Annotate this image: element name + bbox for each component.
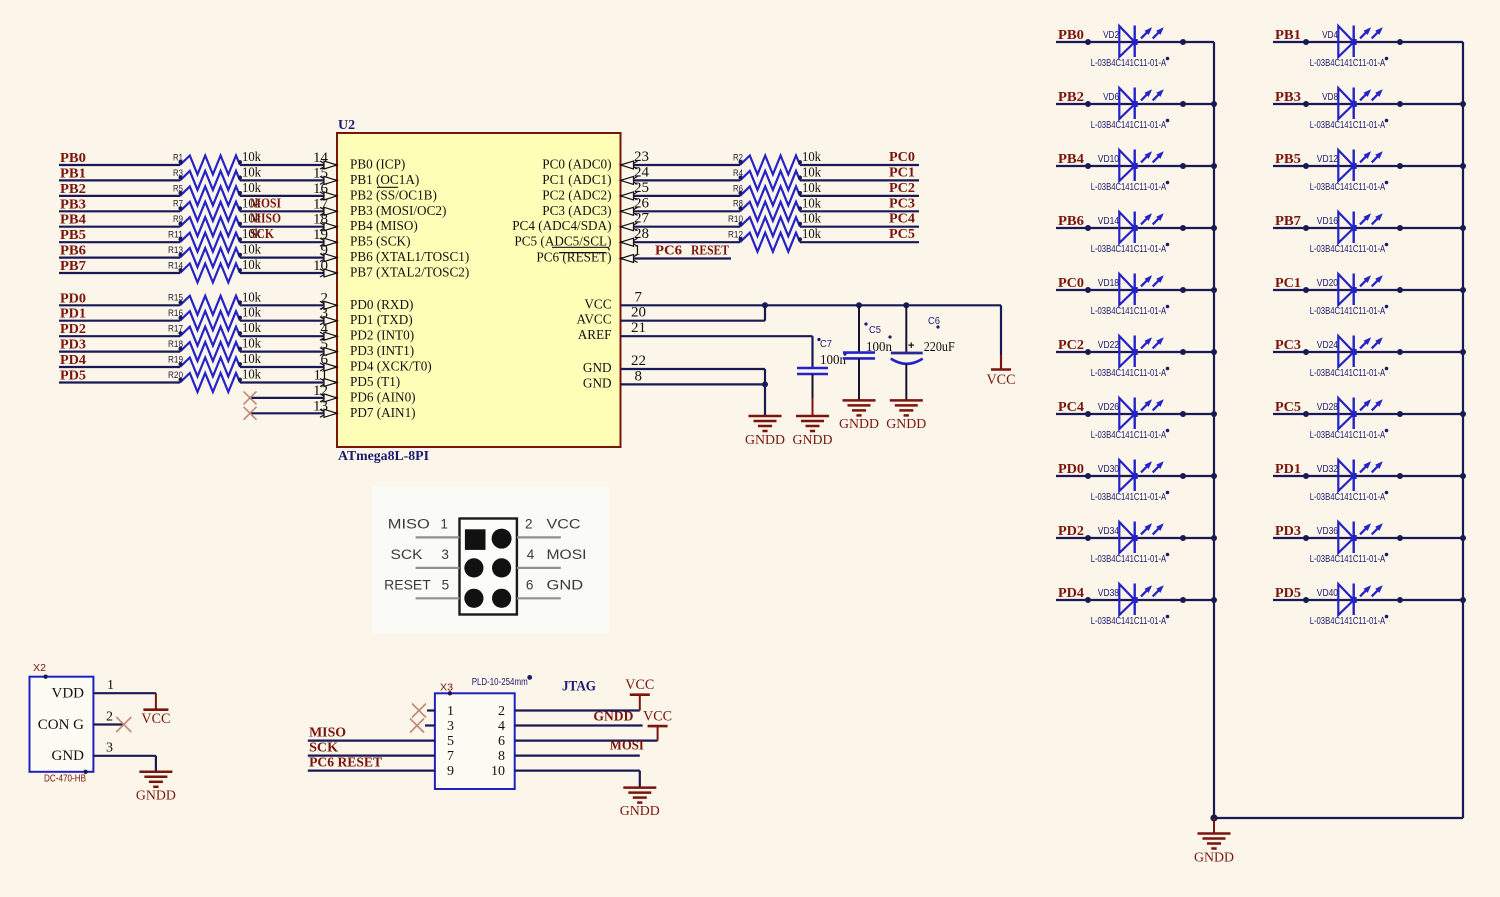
svg-text:SCK: SCK xyxy=(309,741,338,756)
svg-text:C5: C5 xyxy=(869,325,881,336)
svg-text:PB6: PB6 xyxy=(60,244,86,259)
svg-text:VD18: VD18 xyxy=(1098,278,1120,289)
svg-text:L-03B4C141C11-01-A: L-03B4C141C11-01-A xyxy=(1310,367,1386,379)
svg-text:CON G: CON G xyxy=(38,717,84,733)
svg-text:PB3: PB3 xyxy=(60,197,86,212)
svg-text:PD5 (T1): PD5 (T1) xyxy=(350,374,400,389)
svg-text:PD2: PD2 xyxy=(60,322,86,337)
svg-text:X2: X2 xyxy=(33,662,46,674)
svg-text:27: 27 xyxy=(634,211,650,227)
svg-text:VD36: VD36 xyxy=(1317,526,1339,537)
svg-text:PB7 (XTAL2/TOSC2): PB7 (XTAL2/TOSC2) xyxy=(350,265,469,280)
svg-text:10k: 10k xyxy=(242,351,261,366)
svg-text:PC6 (RESET): PC6 (RESET) xyxy=(536,250,611,265)
svg-text:5: 5 xyxy=(442,577,450,592)
svg-text:PC0: PC0 xyxy=(889,150,915,165)
svg-text:R12: R12 xyxy=(728,230,743,240)
svg-text:PC1: PC1 xyxy=(1275,276,1301,291)
svg-text:PD7 (AIN1): PD7 (AIN1) xyxy=(350,405,416,420)
svg-text:R15: R15 xyxy=(168,293,183,303)
svg-text:PD3: PD3 xyxy=(60,338,86,353)
svg-text:PB2: PB2 xyxy=(60,182,86,197)
svg-text:PC4 (ADC4/SDA): PC4 (ADC4/SDA) xyxy=(512,218,611,233)
svg-text:GNDD: GNDD xyxy=(793,433,833,448)
svg-text:PC3: PC3 xyxy=(1275,338,1301,353)
svg-text:PD4: PD4 xyxy=(1058,586,1084,601)
svg-text:1: 1 xyxy=(440,516,448,531)
svg-text:3: 3 xyxy=(441,547,449,562)
svg-text:L-03B4C141C11-01-A: L-03B4C141C11-01-A xyxy=(1310,57,1386,69)
svg-text:26: 26 xyxy=(634,195,650,211)
svg-text:24: 24 xyxy=(634,164,650,180)
svg-text:PB3 (MOSI/OC2): PB3 (MOSI/OC2) xyxy=(350,203,446,218)
svg-text:100n: 100n xyxy=(866,339,892,354)
svg-text:RESET: RESET xyxy=(384,577,431,592)
svg-text:2: 2 xyxy=(498,704,505,719)
svg-text:VCC: VCC xyxy=(141,711,170,727)
svg-text:C7: C7 xyxy=(820,339,832,350)
svg-text:JTAG: JTAG xyxy=(562,679,596,695)
svg-text:MOSI: MOSI xyxy=(547,547,587,562)
svg-text:+: + xyxy=(908,340,914,352)
svg-text:MISO: MISO xyxy=(309,726,346,741)
svg-text:L-03B4C141C11-01-A: L-03B4C141C11-01-A xyxy=(1091,181,1167,193)
svg-text:VCC: VCC xyxy=(987,372,1016,388)
svg-text:L-03B4C141C11-01-A: L-03B4C141C11-01-A xyxy=(1091,367,1167,379)
svg-text:L-03B4C141C11-01-A: L-03B4C141C11-01-A xyxy=(1310,615,1386,627)
svg-text:AREF: AREF xyxy=(578,327,612,342)
svg-text:3: 3 xyxy=(106,740,113,755)
svg-text:10k: 10k xyxy=(802,149,821,164)
svg-text:PB7: PB7 xyxy=(60,259,86,274)
svg-text:GNDD: GNDD xyxy=(620,804,660,819)
svg-text:VD6: VD6 xyxy=(1103,92,1119,103)
svg-text:PC1 (ADC1): PC1 (ADC1) xyxy=(542,172,611,187)
svg-text:MISO: MISO xyxy=(388,516,430,531)
svg-text:L-03B4C141C11-01-A: L-03B4C141C11-01-A xyxy=(1310,553,1386,565)
svg-text:R20: R20 xyxy=(168,370,183,380)
svg-text:4: 4 xyxy=(527,547,535,562)
svg-text:4: 4 xyxy=(498,719,505,734)
svg-text:PB5: PB5 xyxy=(60,228,86,243)
svg-text:20: 20 xyxy=(631,305,646,321)
svg-text:PD1: PD1 xyxy=(60,307,86,322)
svg-text:VCC: VCC xyxy=(584,296,611,311)
svg-text:L-03B4C141C11-01-A: L-03B4C141C11-01-A xyxy=(1310,119,1386,131)
svg-text:PB1: PB1 xyxy=(60,166,86,181)
svg-text:GND: GND xyxy=(547,577,584,592)
svg-text:PB3: PB3 xyxy=(1275,90,1301,105)
svg-text:PD0: PD0 xyxy=(60,291,86,306)
svg-text:R11: R11 xyxy=(168,230,183,240)
svg-text:7: 7 xyxy=(635,289,643,305)
svg-text:VD16: VD16 xyxy=(1317,216,1339,227)
svg-text:GNDD: GNDD xyxy=(593,710,633,725)
svg-text:VCC: VCC xyxy=(643,709,672,725)
svg-text:GNDD: GNDD xyxy=(1194,851,1234,866)
svg-text:2: 2 xyxy=(106,709,113,724)
svg-text:GNDD: GNDD xyxy=(839,417,879,432)
svg-text:L-03B4C141C11-01-A: L-03B4C141C11-01-A xyxy=(1310,491,1386,503)
svg-text:L-03B4C141C11-01-A: L-03B4C141C11-01-A xyxy=(1310,305,1386,317)
svg-text:VD2: VD2 xyxy=(1103,30,1119,41)
svg-text:3: 3 xyxy=(447,719,454,734)
svg-text:VD40: VD40 xyxy=(1317,588,1339,599)
svg-text:PB0: PB0 xyxy=(1058,28,1084,43)
svg-text:R18: R18 xyxy=(168,339,183,349)
svg-text:PD4 (XCK/T0): PD4 (XCK/T0) xyxy=(350,359,432,374)
svg-text:R17: R17 xyxy=(168,324,183,334)
svg-text:R2: R2 xyxy=(733,152,743,162)
svg-text:VD20: VD20 xyxy=(1317,278,1339,289)
svg-text:PD6 (AIN0): PD6 (AIN0) xyxy=(350,389,416,404)
svg-text:L-03B4C141C11-01-A: L-03B4C141C11-01-A xyxy=(1091,57,1167,69)
svg-text:10k: 10k xyxy=(802,226,821,241)
svg-text:100n: 100n xyxy=(820,352,846,367)
svg-text:PD2 (INT0): PD2 (INT0) xyxy=(350,328,414,343)
svg-text:PD2: PD2 xyxy=(1058,524,1084,539)
svg-text:GND: GND xyxy=(583,360,612,375)
svg-text:L-03B4C141C11-01-A: L-03B4C141C11-01-A xyxy=(1091,429,1167,441)
svg-text:R7: R7 xyxy=(173,199,183,209)
svg-text:R10: R10 xyxy=(728,214,743,224)
svg-text:VD12: VD12 xyxy=(1317,154,1339,165)
svg-text:L-03B4C141C11-01-A: L-03B4C141C11-01-A xyxy=(1091,243,1167,255)
svg-text:10k: 10k xyxy=(802,164,821,179)
svg-text:PB4: PB4 xyxy=(60,213,86,228)
svg-text:PD5: PD5 xyxy=(60,369,86,384)
svg-text:VD4: VD4 xyxy=(1322,30,1338,41)
svg-text:21: 21 xyxy=(631,320,646,336)
svg-text:8: 8 xyxy=(498,749,505,764)
svg-text:PB0 (ICP): PB0 (ICP) xyxy=(350,157,405,172)
svg-text:GND: GND xyxy=(583,375,612,390)
svg-text:22: 22 xyxy=(631,353,646,369)
svg-text:PB1 (OC1A): PB1 (OC1A) xyxy=(350,172,419,187)
svg-text:L-03B4C141C11-01-A: L-03B4C141C11-01-A xyxy=(1310,181,1386,193)
svg-text:L-03B4C141C11-01-A: L-03B4C141C11-01-A xyxy=(1091,119,1167,131)
svg-text:PC2 (ADC2): PC2 (ADC2) xyxy=(542,187,611,202)
svg-text:PB2 (SS/OC1B): PB2 (SS/OC1B) xyxy=(350,187,437,202)
svg-text:10: 10 xyxy=(491,764,505,779)
svg-text:L-03B4C141C11-01-A: L-03B4C141C11-01-A xyxy=(1091,305,1167,317)
svg-text:GND: GND xyxy=(52,748,85,764)
svg-text:MOSI: MOSI xyxy=(610,739,644,754)
svg-text:1: 1 xyxy=(447,704,454,719)
svg-text:GNDD: GNDD xyxy=(745,433,785,448)
svg-text:GNDD: GNDD xyxy=(886,417,926,432)
svg-text:10k: 10k xyxy=(242,149,261,164)
svg-text:25: 25 xyxy=(634,180,649,196)
svg-text:5: 5 xyxy=(447,734,454,749)
svg-text:L-03B4C141C11-01-A: L-03B4C141C11-01-A xyxy=(1310,429,1386,441)
svg-text:10k: 10k xyxy=(802,211,821,226)
svg-text:PB4 (MISO): PB4 (MISO) xyxy=(350,218,418,233)
svg-text:2: 2 xyxy=(525,516,533,531)
svg-text:PB6: PB6 xyxy=(1058,214,1084,229)
svg-text:R14: R14 xyxy=(168,260,183,270)
svg-text:VD14: VD14 xyxy=(1098,216,1120,227)
svg-text:PB4: PB4 xyxy=(1058,152,1084,167)
svg-text:10k: 10k xyxy=(242,336,261,351)
svg-text:10k: 10k xyxy=(802,195,821,210)
svg-text:PB5 (SCK): PB5 (SCK) xyxy=(350,234,410,249)
svg-text:PC3 (ADC3): PC3 (ADC3) xyxy=(542,203,611,218)
svg-text:PD4: PD4 xyxy=(60,353,86,368)
svg-text:VD30: VD30 xyxy=(1098,464,1120,475)
svg-text:PC6 RESET: PC6 RESET xyxy=(309,756,383,771)
svg-text:PD1: PD1 xyxy=(1275,462,1301,477)
svg-text:PC2: PC2 xyxy=(889,181,915,196)
svg-text:PC5: PC5 xyxy=(1275,400,1301,415)
svg-text:10k: 10k xyxy=(242,367,261,382)
svg-text:10k: 10k xyxy=(242,180,261,195)
svg-text:R13: R13 xyxy=(168,245,183,255)
svg-text:7: 7 xyxy=(447,749,454,764)
svg-text:PB2: PB2 xyxy=(1058,90,1084,105)
svg-text:SCK: SCK xyxy=(391,547,423,562)
svg-text:MISO: MISO xyxy=(250,212,281,227)
svg-text:10k: 10k xyxy=(242,320,261,335)
svg-text:L-03B4C141C11-01-A: L-03B4C141C11-01-A xyxy=(1091,615,1167,627)
svg-text:PD1 (TXD): PD1 (TXD) xyxy=(350,312,413,327)
svg-text:10k: 10k xyxy=(242,305,261,320)
svg-text:VD24: VD24 xyxy=(1317,340,1339,351)
svg-text:R1: R1 xyxy=(173,152,183,162)
svg-text:PC5: PC5 xyxy=(889,227,915,242)
svg-text:1: 1 xyxy=(107,678,114,693)
svg-text:PC4: PC4 xyxy=(889,212,915,227)
svg-text:MOSI: MOSI xyxy=(250,196,281,211)
svg-text:PC4: PC4 xyxy=(1058,400,1084,415)
svg-text:U2: U2 xyxy=(338,118,355,133)
svg-text:VD8: VD8 xyxy=(1322,92,1338,103)
svg-text:VCC: VCC xyxy=(625,677,654,693)
svg-text:VDD: VDD xyxy=(52,686,85,702)
svg-text:C6: C6 xyxy=(928,316,940,327)
svg-text:R3: R3 xyxy=(173,168,183,178)
svg-text:VCC: VCC xyxy=(547,516,581,531)
svg-text:L-03B4C141C11-01-A: L-03B4C141C11-01-A xyxy=(1091,553,1167,565)
svg-text:VD22: VD22 xyxy=(1098,340,1120,351)
svg-text:PC6: PC6 xyxy=(655,244,682,259)
svg-text:PD0 (RXD): PD0 (RXD) xyxy=(350,297,413,312)
svg-text:VD38: VD38 xyxy=(1098,588,1120,599)
svg-text:VD34: VD34 xyxy=(1098,526,1120,537)
svg-text:SCK: SCK xyxy=(250,227,274,242)
svg-text:DC-470-HB: DC-470-HB xyxy=(44,773,86,784)
svg-text:10k: 10k xyxy=(242,164,261,179)
svg-text:10k: 10k xyxy=(242,242,261,257)
svg-text:PB5: PB5 xyxy=(1275,152,1301,167)
svg-text:10k: 10k xyxy=(802,180,821,195)
svg-text:PD3 (INT1): PD3 (INT1) xyxy=(350,343,414,358)
svg-text:R4: R4 xyxy=(733,168,743,178)
svg-text:RESET: RESET xyxy=(691,244,730,259)
svg-text:PLD-10-254mm: PLD-10-254mm xyxy=(472,677,528,688)
svg-text:R8: R8 xyxy=(733,199,743,209)
svg-text:R16: R16 xyxy=(168,308,183,318)
svg-text:PD5: PD5 xyxy=(1275,586,1301,601)
svg-text:8: 8 xyxy=(635,368,643,384)
svg-text:ATmega8L-8PI: ATmega8L-8PI xyxy=(338,449,429,464)
svg-text:L-03B4C141C11-01-A: L-03B4C141C11-01-A xyxy=(1310,243,1386,255)
svg-text:PD3: PD3 xyxy=(1275,524,1301,539)
svg-text:VD32: VD32 xyxy=(1317,464,1339,475)
svg-text:6: 6 xyxy=(498,734,505,749)
svg-text:PC0: PC0 xyxy=(1058,276,1084,291)
svg-text:PC3: PC3 xyxy=(889,196,915,211)
svg-text:VD26: VD26 xyxy=(1098,402,1120,413)
svg-text:VD28: VD28 xyxy=(1317,402,1339,413)
svg-text:VD10: VD10 xyxy=(1098,154,1120,165)
svg-text:10k: 10k xyxy=(242,289,261,304)
svg-text:23: 23 xyxy=(634,149,649,165)
svg-text:9: 9 xyxy=(447,764,454,779)
svg-text:R6: R6 xyxy=(733,183,743,193)
svg-text:28: 28 xyxy=(634,226,649,242)
svg-text:AVCC: AVCC xyxy=(577,312,612,327)
svg-text:PB1: PB1 xyxy=(1275,28,1301,43)
svg-text:R19: R19 xyxy=(168,354,183,364)
svg-text:6: 6 xyxy=(526,577,534,592)
svg-text:220uF: 220uF xyxy=(924,339,955,354)
svg-text:PD0: PD0 xyxy=(1058,462,1084,477)
svg-text:10k: 10k xyxy=(242,257,261,272)
svg-text:PC5 (ADC5/SCL): PC5 (ADC5/SCL) xyxy=(514,234,611,249)
svg-text:L-03B4C141C11-01-A: L-03B4C141C11-01-A xyxy=(1091,491,1167,503)
svg-text:PB0: PB0 xyxy=(60,151,86,166)
svg-text:PC0 (ADC0): PC0 (ADC0) xyxy=(542,157,611,172)
svg-text:PB6 (XTAL1/TOSC1): PB6 (XTAL1/TOSC1) xyxy=(350,249,469,264)
svg-text:PC2: PC2 xyxy=(1058,338,1084,353)
svg-text:PC1: PC1 xyxy=(889,165,915,180)
svg-text:R5: R5 xyxy=(173,183,183,193)
svg-text:R9: R9 xyxy=(173,214,183,224)
svg-text:PB7: PB7 xyxy=(1275,214,1301,229)
svg-text:GNDD: GNDD xyxy=(136,789,176,804)
